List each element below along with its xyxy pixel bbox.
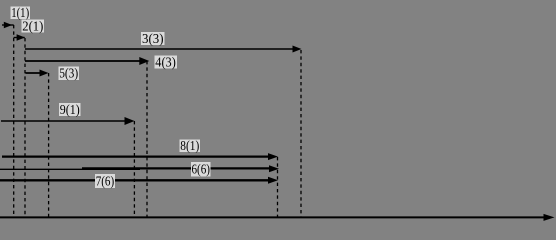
dashed drop line V5 at x=146	[146, 61, 148, 217]
svg-text:4(3): 4(3)	[155, 55, 176, 70]
arrow task6 thick right segment	[82, 167, 272, 169]
arrow task9 head	[125, 117, 135, 125]
dashed drop line V7 at x=301	[300, 50, 302, 217]
arrow task5 line	[26, 72, 43, 74]
arrow task8 head	[268, 153, 278, 160]
arrow task7 line	[0, 179, 271, 181]
arrow task5 head	[40, 70, 49, 77]
label 9(1) box	[59, 103, 81, 116]
arrow task8 line	[2, 155, 271, 157]
svg-text:6(6): 6(6)	[192, 162, 211, 177]
svg-text:7(6): 7(6)	[96, 174, 115, 189]
dashed drop line V3 at x=48.6	[48, 73, 50, 217]
arrow task3 head	[293, 46, 302, 53]
time axis head	[544, 214, 555, 221]
label 2(1) box	[22, 20, 45, 33]
dashed drop line V4 at x=134.4	[133, 121, 135, 217]
svg-text:9(1): 9(1)	[60, 102, 80, 117]
arrow task3 line	[25, 48, 294, 50]
svg-text:3(3): 3(3)	[142, 31, 164, 46]
dashed drop line V2 at x=25	[24, 38, 26, 217]
svg-text:2(1): 2(1)	[22, 19, 43, 34]
arrow task1 line	[2, 24, 14, 26]
arrow task4 head	[139, 57, 149, 65]
arrow task6 thin left segment	[0, 168, 140, 170]
svg-text:5(3): 5(3)	[59, 66, 78, 81]
time axis line	[0, 216, 546, 218]
label 1(1) box	[11, 7, 31, 20]
arrow task9 line	[1, 120, 127, 122]
label 6(6) box	[191, 162, 211, 177]
arrow task1 head	[4, 22, 12, 28]
dashed drop line V6 at x=277.5	[277, 157, 279, 217]
arrow task2 head	[17, 34, 25, 40]
label 3(3) box	[141, 32, 165, 45]
arrow task7 head	[268, 177, 278, 184]
label 8(1) box	[180, 140, 201, 153]
arrow task4 line	[25, 60, 142, 62]
arrow task6 head	[269, 165, 279, 172]
label 7(6) box	[95, 174, 115, 188]
label 5(3) box	[59, 67, 80, 81]
dashed drop line V1 at x=13.7	[13, 25, 15, 217]
arrow task2 line	[14, 37, 25, 39]
svg-text:8(1): 8(1)	[180, 138, 199, 153]
label 4(3) box	[155, 56, 178, 69]
